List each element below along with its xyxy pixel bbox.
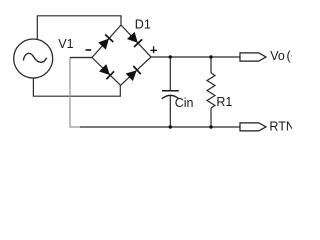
wire: RTN rail — [80, 126, 240, 128]
diode D1b (top corner to right corner) — [127, 32, 142, 47]
svg-text:V1: V1 — [58, 37, 73, 51]
wire: Vo rail from bridge right corner — [151, 56, 240, 58]
svg-text:Cin: Cin — [175, 96, 194, 110]
resistor R1 — [207, 57, 215, 127]
AC source V1 — [14, 39, 53, 78]
label plus — [150, 46, 157, 53]
svg-text:R1: R1 — [216, 95, 232, 109]
label minus — [86, 49, 92, 51]
terminal Vo — [240, 53, 266, 61]
junction dot Cin bottom — [169, 125, 172, 128]
diode D1a (left corner to top corner) — [98, 35, 113, 50]
svg-text:Vo(+: Vo(+ — [270, 49, 292, 63]
bridge rectifier D1 diamond — [92, 25, 151, 85]
diode D1d (bottom corner to right corner) — [126, 66, 141, 81]
wire: V1 top to bridge top corner — [37, 16, 121, 39]
diode D1c (left corner to bottom corner) — [99, 64, 114, 79]
junction dot R1 bottom — [209, 125, 212, 128]
junction dot Cin top — [169, 55, 172, 58]
terminal RTN — [240, 123, 266, 131]
junction dot R1 top — [209, 55, 212, 58]
svg-text:D1: D1 — [135, 18, 151, 32]
capacitor Cin — [162, 57, 179, 127]
wire: bridge left corner to RTN rail (down the left side) — [70, 58, 92, 128]
svg-text:RTN: RTN — [269, 120, 292, 134]
wire: V1 bottom to bridge bottom corner — [33, 78, 120, 96]
